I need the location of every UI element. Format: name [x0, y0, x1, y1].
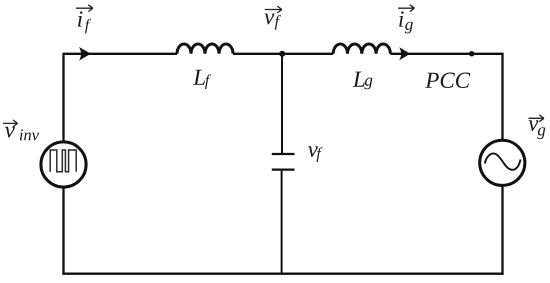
- node v_f junction dot: [279, 51, 285, 57]
- current arrow i_g on wire: [399, 47, 410, 60]
- capacitor C1 top plate: [272, 153, 295, 155]
- label v_g vector arrow: [529, 115, 544, 122]
- source U1 inverter v_inv circle: [41, 142, 86, 187]
- wire top horizontal: [64, 53, 503, 55]
- wire right vertical upper: [501, 53, 503, 140]
- wire left vertical upper: [62, 53, 64, 142]
- pulse waveform symbol inside U1: [50, 150, 76, 172]
- label v_f capacitor: [308, 146, 323, 162]
- wire left vertical lower: [62, 188, 64, 275]
- node PCC junction dot: [469, 51, 474, 56]
- wire capacitor branch upper: [281, 54, 283, 153]
- label i_g vector arrow: [398, 5, 414, 12]
- label v_f top: [264, 14, 281, 30]
- wire bottom horizontal: [62, 273, 503, 275]
- label v_g: [529, 120, 546, 139]
- inductor Lg: [333, 44, 390, 54]
- label i_f vector arrow: [76, 5, 93, 12]
- wire capacitor branch lower: [281, 171, 283, 275]
- source U2 grid v_g circle: [480, 140, 525, 185]
- inductor Lf: [177, 44, 233, 54]
- label i_g: [399, 11, 413, 33]
- current arrow i_f on wire: [79, 47, 91, 61]
- label v_inv vector arrow: [3, 120, 18, 127]
- capacitor C1 bottom plate: [272, 168, 295, 170]
- sine waveform symbol inside U2: [485, 154, 521, 170]
- label PCC: [425, 73, 470, 88]
- label Lf: [193, 70, 211, 89]
- label v_f top vector arrow: [265, 6, 282, 13]
- label Lg: [353, 72, 373, 90]
- wire right vertical lower: [501, 186, 503, 275]
- label i_f: [78, 11, 91, 33]
- label v_inv: [5, 127, 39, 141]
